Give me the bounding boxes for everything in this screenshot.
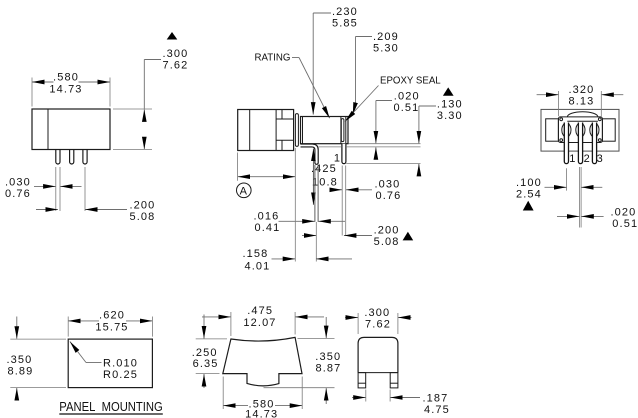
svg-text:A: A: [240, 185, 248, 197]
svg-text:.620: .620: [99, 309, 125, 321]
svg-text:8.13: 8.13: [568, 95, 594, 107]
svg-text:7.62: 7.62: [365, 319, 391, 331]
svg-text:2: 2: [584, 153, 591, 165]
svg-text:.030: .030: [375, 179, 401, 191]
svg-text:7.62: 7.62: [163, 60, 189, 72]
svg-text:14.73: 14.73: [49, 84, 82, 96]
svg-text:6.35: 6.35: [193, 358, 219, 370]
svg-text:.320: .320: [568, 84, 594, 96]
svg-text:0.51: 0.51: [612, 218, 638, 230]
svg-text:.300: .300: [163, 48, 189, 60]
svg-text:.030: .030: [5, 176, 31, 188]
svg-text:.475: .475: [247, 305, 273, 317]
svg-text:5.08: 5.08: [130, 211, 156, 223]
svg-text:.580: .580: [53, 72, 79, 84]
svg-text:3: 3: [597, 153, 604, 165]
svg-text:.200: .200: [374, 225, 400, 237]
svg-text:8.87: 8.87: [316, 362, 342, 374]
svg-text:.187: .187: [423, 392, 449, 404]
svg-text:.350: .350: [7, 354, 33, 366]
svg-text:.300: .300: [364, 307, 390, 319]
svg-text:R0.25: R0.25: [103, 369, 138, 381]
svg-text:.350: .350: [315, 351, 341, 363]
svg-text:12.07: 12.07: [243, 317, 276, 329]
svg-text:5.08: 5.08: [374, 236, 400, 248]
svg-text:15.75: 15.75: [95, 321, 128, 333]
svg-text:5.30: 5.30: [373, 43, 399, 55]
svg-text:RATING: RATING: [255, 52, 291, 63]
svg-text:.020: .020: [611, 206, 637, 218]
svg-text:.016: .016: [254, 210, 280, 222]
svg-text:.200: .200: [130, 199, 156, 211]
svg-text:1: 1: [569, 153, 576, 165]
svg-text:10.8: 10.8: [312, 177, 338, 189]
svg-text:0.41: 0.41: [255, 222, 281, 234]
svg-text:R.010: R.010: [103, 358, 138, 370]
svg-text:.209: .209: [373, 31, 399, 43]
svg-text:0.76: 0.76: [5, 188, 31, 200]
svg-text:8.89: 8.89: [8, 366, 34, 378]
svg-text:.230: .230: [332, 6, 358, 18]
svg-text:.020: .020: [394, 91, 420, 103]
svg-text:0.76: 0.76: [376, 190, 402, 202]
svg-text:EPOXY SEAL: EPOXY SEAL: [380, 76, 441, 87]
svg-text:.100: .100: [516, 177, 542, 189]
svg-text:4.75: 4.75: [424, 404, 450, 416]
svg-text:4.01: 4.01: [245, 261, 271, 273]
svg-text:0.51: 0.51: [394, 102, 420, 114]
svg-text:14.73: 14.73: [245, 409, 278, 418]
svg-text:5.85: 5.85: [332, 18, 358, 30]
svg-text:.130: .130: [437, 99, 463, 111]
svg-text:3.30: 3.30: [437, 110, 463, 122]
svg-text:2.54: 2.54: [516, 189, 542, 201]
svg-text:PANEL MOUNTING: PANEL MOUNTING: [59, 399, 163, 414]
svg-text:.158: .158: [243, 248, 269, 260]
